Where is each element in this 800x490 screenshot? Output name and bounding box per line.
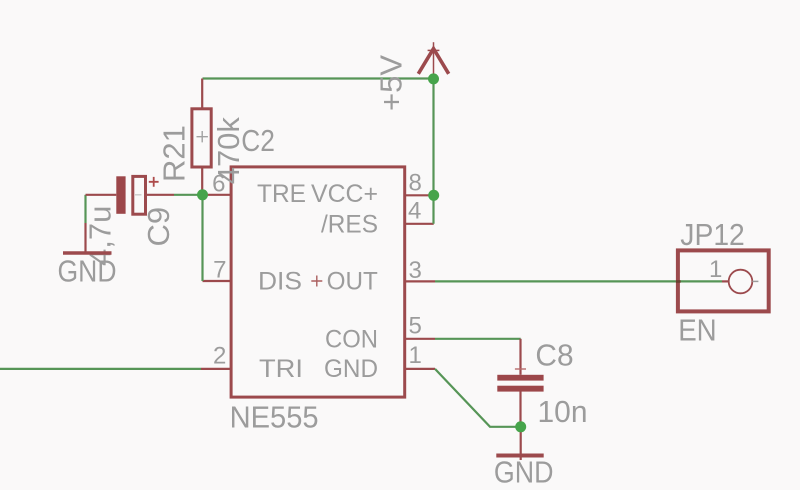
svg-text:DIS: DIS — [258, 268, 302, 296]
svg-text:1: 1 — [709, 256, 722, 283]
svg-text:3: 3 — [409, 257, 422, 284]
svg-text:/RES: /RES — [321, 211, 378, 239]
svg-text:TRE: TRE — [257, 180, 306, 208]
svg-text:7: 7 — [213, 256, 226, 283]
svg-text:C2: C2 — [241, 123, 275, 158]
svg-text:GND: GND — [324, 355, 378, 383]
svg-text:2: 2 — [213, 343, 226, 370]
svg-text:OUT: OUT — [327, 268, 378, 296]
svg-text:VCC+: VCC+ — [311, 180, 378, 208]
svg-text:EN: EN — [678, 312, 717, 347]
svg-text:4: 4 — [408, 198, 421, 225]
svg-text:C9: C9 — [141, 207, 176, 247]
svg-text:+5V: +5V — [374, 55, 409, 111]
svg-text:GND: GND — [494, 455, 554, 490]
svg-text:R21: R21 — [156, 125, 191, 182]
svg-text:1: 1 — [409, 342, 422, 369]
svg-text:5: 5 — [409, 313, 422, 340]
svg-text:JP12: JP12 — [680, 217, 745, 252]
svg-text:8: 8 — [409, 170, 422, 197]
svg-text:NE555: NE555 — [230, 400, 319, 435]
svg-text:10n: 10n — [538, 394, 588, 429]
svg-text:CON: CON — [325, 326, 378, 354]
svg-text:GND: GND — [58, 254, 117, 289]
svg-text:TRI: TRI — [259, 355, 303, 383]
svg-text:C8: C8 — [535, 337, 573, 372]
